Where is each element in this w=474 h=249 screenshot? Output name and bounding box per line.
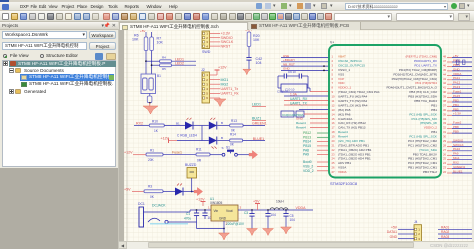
wire net +BRADY bbox=[281, 61, 329, 63]
net label 1.0A bbox=[290, 92, 298, 96]
svg-text:B: B bbox=[221, 136, 223, 140]
svg-text:C1: C1 bbox=[186, 212, 190, 216]
resistor R7 bbox=[150, 37, 164, 51]
resistor R14 bbox=[230, 132, 243, 146]
svg-text:PA9: PA9 bbox=[453, 152, 459, 156]
svg-text:R13: R13 bbox=[231, 119, 237, 123]
svg-text:B1: B1 bbox=[157, 74, 161, 78]
ground under U1 bbox=[219, 233, 230, 240]
svg-text:39: 39 bbox=[443, 95, 447, 99]
resistor R11 bbox=[196, 148, 210, 163]
svg-text:35: 35 bbox=[443, 112, 447, 116]
svg-text:18: 18 bbox=[332, 130, 336, 134]
svg-text:11: 11 bbox=[332, 99, 335, 103]
MCU U3 part name STM32F103C8 bbox=[330, 181, 358, 186]
svg-text:24: 24 bbox=[443, 161, 447, 165]
svg-text:PB3 TSL2: PB3 TSL2 bbox=[423, 170, 437, 174]
wire net PA8 bbox=[317, 149, 329, 151]
connector J4 bbox=[414, 220, 422, 242]
svg-text:UART1_TX (H2) PA4: UART1_TX (H2) PA4 bbox=[338, 99, 367, 103]
wire R10 to D1 bbox=[164, 121, 185, 125]
svg-text:PB3 (H3) CLK_CO2: PB3 (H3) CLK_CO2 bbox=[409, 90, 437, 94]
net label GREEN1 bbox=[243, 122, 267, 126]
diode D1 bbox=[185, 118, 193, 130]
net label HSE bbox=[283, 54, 289, 58]
svg-text:10K: 10K bbox=[132, 38, 139, 42]
svg-text:104: 104 bbox=[271, 213, 277, 217]
net label PB12 bbox=[303, 131, 311, 135]
svg-text:PB5 TXA_RAD4: PB5 TXA_RAD4 bbox=[414, 99, 437, 103]
svg-text:Boot0: Boot0 bbox=[303, 160, 312, 164]
svg-text:C RGB_LED4: C RGB_LED4 bbox=[177, 134, 197, 138]
svg-text:(H2) PA5: (H2) PA5 bbox=[338, 108, 351, 112]
svg-text:UART1_RX: UART1_RX bbox=[290, 97, 308, 101]
diode D2 bbox=[209, 118, 217, 130]
svg-text:VSSA: VSSA bbox=[338, 166, 347, 170]
svg-text:28: 28 bbox=[443, 143, 447, 147]
svg-text:PB1 (H5)TDA2_CM1: PB1 (H5)TDA2_CM1 bbox=[408, 157, 437, 161]
svg-text:PD1 (H3)WTD4: PD1 (H3)WTD4 bbox=[415, 81, 437, 85]
svg-text:(H5)SPL_MI: (H5)SPL_MI bbox=[420, 121, 437, 125]
svg-text:(TDA1_OB2C) AD2 PB1: (TDA1_OB2C) AD2 PB1 bbox=[338, 148, 372, 152]
wire net RA03 bbox=[438, 238, 472, 240]
svg-text:PB3 (H3)TDA2_SDA: PB3 (H3)TDA2_SDA bbox=[408, 95, 438, 99]
net label UART1_TX bbox=[290, 101, 308, 105]
svg-text:PB1: PB1 bbox=[431, 103, 437, 107]
svg-text:VSSO_1: VSSO_1 bbox=[338, 68, 350, 72]
svg-text:PD1 UART1_TX: PD1 UART1_TX bbox=[414, 64, 437, 68]
svg-text:Fuse2: Fuse2 bbox=[453, 121, 462, 125]
wire C42 to ground bbox=[248, 60, 250, 70]
svg-text:29: 29 bbox=[443, 139, 447, 143]
schematic sheet background bbox=[124, 30, 474, 241]
wire net PB13 bbox=[317, 136, 329, 138]
capacitor C3b bbox=[244, 210, 255, 229]
svg-text:VDDIO_2: VDDIO_2 bbox=[424, 126, 438, 130]
svg-text:DCJACK: DCJACK bbox=[152, 204, 166, 208]
svg-text:R4: R4 bbox=[162, 56, 166, 60]
ground under U2 bbox=[143, 106, 158, 114]
net label PA9 bbox=[303, 153, 309, 157]
svg-text:44: 44 bbox=[443, 72, 447, 76]
svg-text:Reset4: Reset4 bbox=[296, 121, 306, 125]
net label RA02 bbox=[441, 230, 449, 234]
resistor R20 bbox=[247, 32, 260, 47]
svg-text:PC3 (H5)TDA2_CM1: PC3 (H5)TDA2_CM1 bbox=[408, 161, 437, 165]
wire U1 out rail bbox=[238, 209, 313, 211]
svg-text:23: 23 bbox=[443, 166, 447, 170]
svg-text:+5V: +5V bbox=[253, 199, 260, 203]
net label NB_RST bbox=[283, 62, 295, 66]
svg-text:VSS: VSS bbox=[338, 72, 344, 76]
power port +12V row B bbox=[161, 137, 178, 143]
svg-text:RA02: RA02 bbox=[441, 230, 449, 234]
net label LED1 bbox=[175, 57, 184, 61]
capacitor C5 bbox=[283, 210, 295, 227]
svg-text:UART1_TX: UART1_TX bbox=[290, 101, 308, 105]
power port +5V row D bbox=[124, 187, 144, 191]
svg-text:RA03: RA03 bbox=[441, 235, 449, 239]
svg-text:UART1_FU (H2) PA4: UART1_FU (H2) PA4 bbox=[338, 95, 368, 99]
diode D5 bbox=[175, 184, 183, 196]
wire J2 pin 4 bbox=[210, 88, 221, 90]
svg-text:47: 47 bbox=[443, 59, 447, 63]
svg-text:UART1_CK (H2) PA4: UART1_CK (H2) PA4 bbox=[338, 103, 368, 107]
diode D3 bbox=[209, 137, 224, 150]
svg-text:SWDIO: SWDIO bbox=[453, 138, 464, 142]
svg-text:UART1_Rx: UART1_Rx bbox=[221, 92, 239, 96]
svg-text:PB10: PB10 bbox=[453, 58, 461, 62]
wire R3 to D5 bbox=[163, 191, 175, 193]
capacitor C4 (horizontal) bbox=[299, 74, 308, 79]
svg-text:C10|10A: C10|10A bbox=[277, 90, 288, 94]
svg-text:37: 37 bbox=[443, 103, 447, 107]
capacitor C1 bbox=[184, 210, 199, 222]
resistor R10 bbox=[149, 119, 164, 133]
svg-text:PB9: PB9 bbox=[453, 130, 459, 134]
svg-text:26: 26 bbox=[332, 166, 336, 170]
svg-text:J2: J2 bbox=[201, 68, 205, 72]
svg-text:14: 14 bbox=[332, 112, 336, 116]
svg-text:12: 12 bbox=[332, 103, 336, 107]
svg-text:R1: R1 bbox=[150, 148, 154, 152]
net label PB14 bbox=[303, 140, 311, 144]
net label +BRADY bbox=[283, 58, 295, 62]
svg-text:PB1: PB1 bbox=[431, 130, 437, 134]
svg-text:Reset4: Reset4 bbox=[296, 126, 306, 130]
svg-text:R11: R11 bbox=[196, 148, 202, 152]
svg-text:1.0A: 1.0A bbox=[290, 92, 298, 96]
label Fuse1 bbox=[163, 150, 196, 154]
sheet border bbox=[126, 30, 128, 241]
net label Boot0 bbox=[303, 160, 312, 164]
svg-text:R5: R5 bbox=[162, 67, 166, 71]
net label PB13 bbox=[303, 135, 311, 139]
svg-text:(REF/TL) [TDA2_CM6]: (REF/TL) [TDA2_CM6] bbox=[406, 55, 438, 59]
svg-text:R10: R10 bbox=[152, 119, 158, 123]
svg-text:25: 25 bbox=[443, 157, 447, 161]
svg-text:+3.3V: +3.3V bbox=[453, 112, 461, 116]
crystal Y1 bbox=[278, 76, 310, 92]
svg-text:PB1 (H5)TDA2_CM1: PB1 (H5)TDA2_CM1 bbox=[408, 166, 437, 170]
net label SWDIO bbox=[221, 36, 233, 40]
net label MG2 bbox=[221, 82, 229, 86]
svg-text:10K: 10K bbox=[157, 41, 164, 45]
svg-text:VDDIO_1: VDDIO_1 bbox=[338, 86, 352, 90]
wire net HSE bbox=[281, 57, 329, 59]
wire net NB_RST bbox=[281, 65, 329, 67]
svg-text:C3: C3 bbox=[244, 211, 248, 215]
power port +12V top bbox=[196, 198, 206, 207]
svg-text:S: S bbox=[222, 146, 224, 150]
svg-text:XW1805: XW1805 bbox=[210, 201, 222, 205]
svg-text:BLUE1: BLUE1 bbox=[253, 137, 264, 141]
wire from R6 down to U2 bbox=[145, 32, 147, 74]
wire J4 +5V bbox=[398, 228, 414, 230]
svg-text:LED1: LED1 bbox=[252, 103, 261, 107]
MCU U3 right pin labels bbox=[386, 55, 446, 174]
wire crystal bottom to MCU bbox=[277, 88, 329, 94]
svg-text:PB5: PB5 bbox=[453, 107, 459, 111]
net label RA03 bbox=[441, 235, 449, 239]
power port +3.3V bbox=[243, 28, 253, 34]
wire net VSS_2 bbox=[317, 165, 329, 167]
net label RX2 bbox=[134, 121, 149, 125]
svg-text:36: 36 bbox=[443, 108, 447, 112]
svg-text:VDDA: VDDA bbox=[338, 170, 348, 174]
svg-text:PA12: PA12 bbox=[453, 81, 460, 85]
svg-text:+12V: +12V bbox=[218, 66, 227, 70]
wire D3 to R14 bbox=[217, 136, 229, 141]
capacitor C10 group bbox=[281, 111, 304, 117]
svg-text:DC1: DC1 bbox=[138, 202, 145, 206]
svg-text:10: 10 bbox=[332, 95, 336, 99]
svg-text:RA01: RA01 bbox=[441, 226, 449, 230]
svg-text:SWD: SWD bbox=[202, 50, 211, 54]
svg-text:ADV PB1: ADV PB1 bbox=[338, 161, 351, 165]
svg-text:470u: 470u bbox=[184, 217, 191, 221]
wire net Boot0 bbox=[317, 161, 329, 163]
svg-text:PB8: PB8 bbox=[453, 125, 459, 129]
power port +5V rail bbox=[253, 199, 260, 210]
MCU U3 left pin labels bbox=[332, 55, 380, 174]
net label Reset4 bbox=[296, 126, 306, 130]
svg-text:B1: B1 bbox=[176, 121, 180, 125]
svg-text:10uH: 10uH bbox=[276, 200, 284, 204]
svg-text:Vout: Vout bbox=[226, 209, 233, 213]
right edge strip bbox=[472, 30, 474, 241]
net label GND bbox=[390, 235, 398, 239]
svg-text:+12V: +12V bbox=[196, 198, 205, 202]
svg-text:38: 38 bbox=[443, 99, 447, 103]
svg-text:VDD_2: VDD_2 bbox=[303, 169, 314, 173]
svg-text:34: 34 bbox=[443, 117, 447, 121]
svg-text:PA15: PA15 bbox=[453, 94, 460, 98]
wire C1 bottom to gnd junction bbox=[197, 222, 225, 229]
net label Reset4 bbox=[296, 121, 306, 125]
svg-text:32: 32 bbox=[443, 126, 447, 130]
wire net 1.0A bbox=[284, 95, 329, 97]
svg-text:C12/C10A: C12/C10A bbox=[338, 117, 353, 121]
wire net PA9 bbox=[317, 154, 329, 156]
capacitor C6 right bbox=[457, 60, 460, 65]
svg-text:PD4(H3) TDA2_CM([B6RP]: PD4(H3) TDA2_CM([B6RP] bbox=[399, 68, 437, 72]
svg-text:VCP: VCP bbox=[338, 77, 344, 81]
svg-text:23: 23 bbox=[332, 152, 336, 156]
wire link row A to row B bbox=[201, 126, 203, 141]
regulator U1 bbox=[208, 197, 242, 226]
wire D2 to R13 bbox=[217, 121, 229, 126]
svg-text:NRST: NRST bbox=[221, 44, 232, 48]
svg-text:10K: 10K bbox=[253, 38, 260, 42]
svg-text:PC1 (H5)TDA2_CM2: PC1 (H5)TDA2_CM2 bbox=[408, 143, 437, 147]
wire net PB14 bbox=[317, 141, 329, 143]
wire net RA01 bbox=[438, 228, 472, 230]
wire spare row bbox=[299, 109, 329, 111]
connector J1 SWD bbox=[202, 31, 211, 54]
wire C10 row bbox=[304, 113, 329, 115]
switch S1 bbox=[222, 146, 237, 157]
wire S1 to arrow bbox=[238, 154, 253, 156]
svg-text:43: 43 bbox=[443, 77, 447, 81]
label RGB_LED4 bbox=[177, 134, 197, 138]
off-sheet arrow right bbox=[249, 151, 258, 159]
wire J4 GND bbox=[398, 238, 414, 240]
wire R11 to S1 bbox=[210, 154, 222, 156]
svg-text:31: 31 bbox=[443, 130, 447, 134]
resistor R3 bbox=[144, 185, 163, 199]
svg-text:VDD: VDD bbox=[338, 81, 345, 85]
svg-text:(H2) PA6: (H2) PA6 bbox=[338, 112, 351, 116]
svg-text:(TDA1_OB2O AD4 PB1: (TDA1_OB2O AD4 PB1 bbox=[338, 157, 371, 161]
svg-text:MG1: MG1 bbox=[221, 78, 229, 82]
svg-text:PB4: PB4 bbox=[453, 103, 459, 107]
net label GND bbox=[296, 117, 304, 121]
net label RA01 bbox=[441, 226, 449, 230]
svg-text:OSC32_IN/PC14: OSC32_IN/PC14 bbox=[338, 59, 362, 63]
svg-text:27: 27 bbox=[443, 148, 447, 152]
svg-text:PD4(H3)UT1_CM2T1_BA2)VCLA_O: PD4(H3)UT1_CM2T1_BA2)VCLA_O bbox=[386, 86, 437, 90]
svg-text:PC1 (H5)SPL_MO: PC1 (H5)SPL_MO bbox=[412, 117, 438, 121]
junction dots left bbox=[323, 65, 325, 71]
svg-text:SWCLK: SWCLK bbox=[453, 143, 464, 147]
resistor R6 bbox=[132, 34, 148, 51]
wire J1 pin 4 bbox=[210, 45, 221, 47]
net label +5V bbox=[391, 226, 398, 230]
wire net RA02 bbox=[438, 233, 472, 235]
svg-text:PD3(H3)TDA2_CM([ADC_BTR]: PD3(H3)TDA2_CM([ADC_BTR] bbox=[393, 72, 437, 76]
net label PA8 bbox=[303, 148, 309, 152]
wire D1 to D2 bbox=[194, 125, 209, 127]
wire R20 to C42 bbox=[248, 47, 250, 58]
wire to D3 bbox=[177, 140, 209, 142]
svg-text:GREEN1: GREEN1 bbox=[453, 165, 466, 169]
svg-text:20K: 20K bbox=[148, 158, 155, 162]
capacitor C3 (horizontal) bbox=[278, 70, 299, 79]
svg-text:+5V: +5V bbox=[453, 54, 458, 58]
resistor R4 bbox=[146, 56, 196, 63]
svg-text:VDDA: VDDA bbox=[296, 206, 307, 210]
svg-text:(TUGC_SDA: (TUGC_SDA bbox=[419, 148, 438, 152]
svg-text:PD0/UART1_RX: PD0/UART1_RX bbox=[414, 59, 437, 63]
capacitor C7 right bbox=[463, 60, 466, 65]
net label PB15 bbox=[303, 144, 311, 148]
svg-text:B: B bbox=[221, 121, 223, 125]
svg-text:Reset4: Reset4 bbox=[338, 130, 348, 134]
svg-text:GND: GND bbox=[390, 235, 398, 239]
svg-text:Fuse1: Fuse1 bbox=[172, 150, 182, 154]
off-sheet arrow right 2 bbox=[194, 188, 203, 196]
wire net Reset4 bbox=[310, 127, 329, 129]
resistor R13 bbox=[230, 119, 244, 133]
label 220uF@10V bbox=[226, 222, 245, 226]
svg-text:PC1 (H5) SPL_SCK: PC1 (H5) SPL_SCK bbox=[409, 112, 438, 116]
svg-text:+5V: +5V bbox=[391, 226, 398, 230]
svg-text:J4: J4 bbox=[414, 220, 418, 224]
wire net GND bbox=[281, 69, 329, 71]
svg-text:CAN_RX (H2) PB12: CAN_RX (H2) PB12 bbox=[338, 121, 366, 125]
svg-text:30: 30 bbox=[443, 135, 447, 139]
net label LED2 bbox=[175, 61, 184, 65]
capacitor C2 bbox=[202, 210, 213, 220]
power port +12V row C bbox=[124, 151, 146, 155]
wire net UART1_TX bbox=[284, 104, 329, 106]
svg-text:MG1: MG1 bbox=[453, 156, 460, 160]
connector J2 UART bbox=[201, 68, 210, 103]
label BUZZD bbox=[185, 163, 197, 167]
svg-text:RX2: RX2 bbox=[136, 121, 143, 125]
svg-text:RX2: RX2 bbox=[453, 161, 459, 165]
svg-text:PC1 (H5) SPL_SCK: PC1 (H5) SPL_SCK bbox=[409, 135, 438, 139]
net label DATA1 bbox=[387, 230, 397, 234]
svg-text:PA13: PA13 bbox=[453, 85, 460, 89]
net label UART1_Rx bbox=[221, 92, 239, 96]
wire net PB15 bbox=[317, 145, 329, 147]
svg-text:PD2(H3)TDA2_CM([TDA2_CM1]: PD2(H3)TDA2_CM([TDA2_CM1] bbox=[392, 77, 438, 81]
svg-text:48: 48 bbox=[443, 55, 447, 59]
svg-text:(I2C_HC) ADV PB1: (I2C_HC) ADV PB1 bbox=[338, 139, 365, 143]
ground under C4b bbox=[263, 229, 274, 236]
svg-text:+5V: +5V bbox=[124, 187, 131, 191]
svg-text:0R: 0R bbox=[197, 159, 202, 163]
svg-text:VDDA: VDDA bbox=[453, 72, 461, 76]
svg-text:42: 42 bbox=[443, 81, 447, 85]
optocoupler U2 bbox=[141, 74, 161, 94]
svg-text:19: 19 bbox=[332, 135, 336, 139]
svg-text:GND: GND bbox=[453, 67, 461, 71]
svg-text:CAN_TX (H2) PB13: CAN_TX (H2) PB13 bbox=[338, 126, 366, 130]
wire J1 pin 3 bbox=[210, 41, 221, 43]
svg-text:13: 13 bbox=[332, 108, 336, 112]
svg-text:+12V: +12V bbox=[124, 151, 133, 155]
net label VSS_2 bbox=[303, 165, 313, 169]
highlight box around MCU bbox=[329, 45, 441, 178]
svg-text:104: 104 bbox=[256, 61, 262, 65]
svg-text:24: 24 bbox=[332, 157, 336, 161]
net label SWCLK bbox=[221, 40, 234, 44]
wire J1 pin 2 bbox=[210, 37, 221, 39]
svg-text:+5V: +5V bbox=[140, 30, 145, 33]
svg-text:Vin: Vin bbox=[214, 209, 219, 213]
resistor R5 bbox=[152, 64, 196, 71]
svg-text:MG2: MG2 bbox=[221, 82, 229, 86]
svg-text:R3: R3 bbox=[148, 185, 152, 189]
svg-text:40: 40 bbox=[443, 90, 447, 94]
net label +3.3V bbox=[221, 32, 231, 36]
svg-text:22: 22 bbox=[332, 148, 336, 152]
net label NRST bbox=[221, 44, 232, 48]
inductor L1 bbox=[270, 200, 288, 211]
wire D5 to arrow bbox=[184, 191, 195, 193]
svg-text:LED2: LED2 bbox=[175, 61, 184, 65]
wire J2 pin 6 to ground bbox=[210, 98, 221, 100]
selected wire cyan bbox=[150, 223, 188, 225]
wire net UART1_RX bbox=[284, 100, 329, 102]
svg-text:17: 17 bbox=[332, 126, 336, 130]
svg-text:PA9: PA9 bbox=[303, 153, 309, 157]
svg-text:GREEN1: GREEN1 bbox=[252, 122, 267, 126]
svg-text:DATA1: DATA1 bbox=[387, 230, 397, 234]
svg-text:PB3 TDA2_BK2V: PB3 TDA2_BK2V bbox=[413, 152, 438, 156]
node V+ bbox=[330, 41, 334, 45]
net label VDD_2 bbox=[303, 169, 314, 173]
svg-text:26: 26 bbox=[443, 152, 447, 156]
svg-text:R14: R14 bbox=[230, 132, 236, 136]
svg-text:PB1: PB1 bbox=[431, 108, 437, 112]
svg-text:104: 104 bbox=[290, 218, 296, 222]
svg-text:220uF@10V: 220uF@10V bbox=[226, 222, 245, 226]
svg-text:VBAT: VBAT bbox=[338, 55, 346, 59]
